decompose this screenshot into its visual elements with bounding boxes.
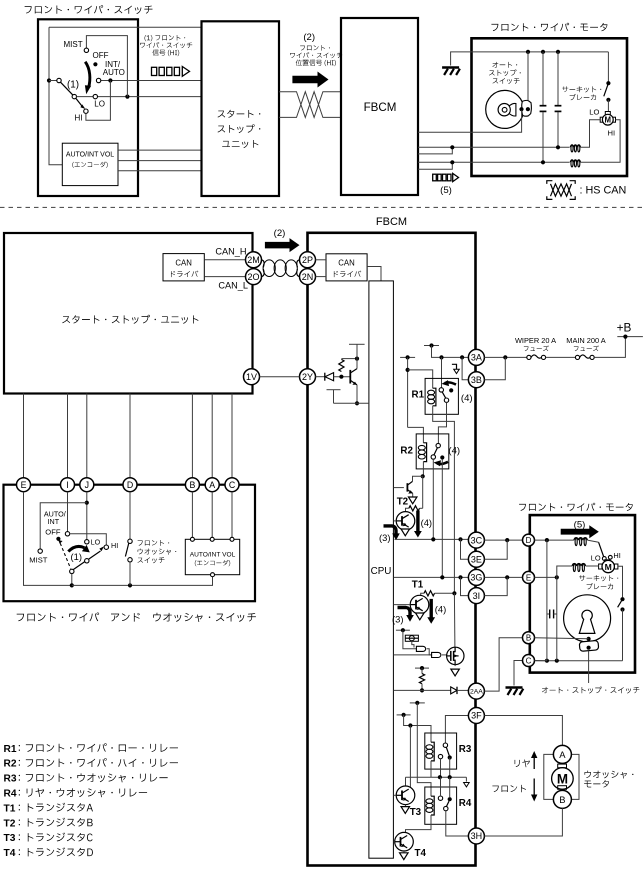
node T2 collector bbox=[421, 474, 425, 478]
wire Q2 emitter bbox=[405, 530, 407, 531]
contact HI bbox=[84, 109, 88, 113]
wire E run bbox=[535, 576, 557, 578]
svg-text:R2: R2 bbox=[4, 759, 17, 770]
inductor E bbox=[572, 563, 586, 566]
wire FBCM HI pair bbox=[418, 161, 570, 163]
wire E up to coil bbox=[557, 566, 572, 577]
svg-text:3G: 3G bbox=[470, 573, 482, 583]
contact MIST bbox=[84, 48, 88, 52]
wire 3C bus bbox=[395, 538, 469, 540]
relay R4 contacts bbox=[448, 797, 452, 801]
port 3H bbox=[468, 828, 484, 844]
encoder AUTO/INT VOL box bbox=[62, 143, 118, 185]
resistor R pullup bbox=[339, 359, 344, 371]
svg-text:3B: 3B bbox=[471, 375, 482, 385]
wire emitter to CPU bbox=[334, 402, 369, 404]
arrow (4) T1 bbox=[430, 599, 433, 618]
icon R1 throw arrow bbox=[452, 364, 457, 369]
wire R4 coil out bbox=[406, 815, 432, 832]
wire T3 base bbox=[393, 794, 396, 796]
arrow (4) T2 bbox=[416, 511, 419, 533]
wire 3F to washer bbox=[484, 716, 562, 746]
node res tap bbox=[339, 375, 343, 379]
contact HI motor bbox=[608, 555, 612, 559]
port 3C bbox=[468, 532, 484, 548]
label auto stop switch bottom bbox=[542, 687, 639, 694]
circuit breaker top bbox=[607, 52, 609, 83]
front wiper and washer switch box bbox=[4, 485, 256, 602]
wire D blade bbox=[587, 540, 598, 542]
relay R1 coil bbox=[433, 388, 436, 406]
terminal Q1 emitter bbox=[416, 613, 425, 620]
svg-text:B: B bbox=[559, 794, 565, 805]
node OFF sw2 bbox=[56, 537, 60, 541]
port 2N bbox=[300, 269, 316, 285]
port 2Y bbox=[300, 369, 316, 385]
start stop unit box bottom bbox=[4, 233, 253, 394]
wire pivot down bbox=[71, 574, 73, 586]
svg-text:(4): (4) bbox=[461, 393, 473, 404]
node 3E ext tap bbox=[505, 538, 509, 542]
wire 3C to D bbox=[484, 539, 522, 541]
contact enc C bbox=[230, 537, 234, 541]
wire J down bbox=[86, 492, 88, 540]
wire FBCM to autostop bbox=[418, 111, 522, 133]
arrow (2) bottom bbox=[265, 238, 300, 252]
svg-text:R3: R3 bbox=[4, 774, 17, 785]
node LO junction bbox=[125, 95, 129, 99]
wire LO to M bbox=[581, 120, 601, 148]
port 3E bbox=[468, 551, 484, 567]
label front washer switch bbox=[138, 540, 170, 546]
supply bar em bbox=[327, 389, 341, 391]
svg-text:2N: 2N bbox=[302, 272, 314, 282]
node washer bottom bbox=[128, 583, 132, 587]
wire D drop bbox=[546, 540, 548, 661]
svg-text:I: I bbox=[66, 480, 68, 490]
terminal C bbox=[225, 478, 239, 492]
svg-text:CPU: CPU bbox=[371, 566, 392, 577]
ground top bbox=[451, 52, 472, 66]
contact enc B bbox=[190, 537, 194, 541]
contact LO sw2 bbox=[85, 540, 89, 544]
label front wiper and washer switch bbox=[17, 612, 256, 622]
wire unit drop A bbox=[211, 394, 213, 478]
svg-text:2M: 2M bbox=[247, 255, 260, 265]
washer bracket bbox=[544, 754, 554, 799]
port 1V bbox=[244, 369, 260, 385]
port 2P bbox=[300, 252, 316, 268]
diode D1 bbox=[324, 373, 326, 381]
relay R1 contacts bbox=[439, 388, 443, 392]
node R2NC-3C bbox=[431, 537, 435, 541]
wire D run bbox=[535, 539, 574, 541]
node pivot bottom bbox=[70, 583, 74, 587]
terminal Q2 emitter bbox=[401, 529, 410, 536]
wire 3E ext link bbox=[484, 540, 507, 559]
resistor T2 bbox=[409, 506, 420, 511]
motor M bottom bbox=[605, 560, 610, 563]
blade sw2 bbox=[73, 562, 85, 570]
wire R3 NO down bbox=[449, 758, 451, 778]
node R1 coil tap bbox=[406, 368, 410, 372]
wire R1 common down bbox=[441, 357, 443, 387]
leader autostop bbox=[588, 651, 590, 683]
label front wiper motor bottom bbox=[519, 503, 633, 511]
svg-text:T2: T2 bbox=[397, 496, 409, 507]
port 2M bbox=[246, 252, 262, 268]
port C motor bbox=[523, 655, 535, 667]
label auto stop switch top bbox=[492, 62, 517, 68]
wire res to Q2 bbox=[406, 508, 409, 511]
supply stub R3 bbox=[397, 714, 411, 716]
relay R2 contacts bbox=[436, 443, 440, 447]
label circuit breaker bottom bbox=[579, 575, 618, 581]
svg-text:MIST: MIST bbox=[64, 40, 83, 49]
wire 3A bus bbox=[432, 346, 469, 358]
terminal D bbox=[123, 478, 137, 492]
fuse WIPER 20A bbox=[527, 355, 531, 359]
svg-text:OFF: OFF bbox=[45, 527, 61, 536]
node contact a bbox=[519, 107, 523, 111]
fuse MAIN 200A bbox=[575, 355, 579, 359]
svg-text:3A: 3A bbox=[471, 353, 482, 363]
circuit breaker bottom bbox=[620, 597, 624, 601]
svg-text:INT: INT bbox=[48, 517, 60, 526]
port B washer bbox=[553, 790, 571, 808]
svg-text:3E: 3E bbox=[471, 555, 482, 565]
node bus E bbox=[555, 659, 559, 663]
wire R4 NO to 3H bbox=[446, 811, 469, 836]
svg-text:MIST: MIST bbox=[29, 556, 48, 565]
node tap cap2 bbox=[556, 50, 560, 54]
contact washer bottom bbox=[128, 558, 132, 562]
label riya bbox=[515, 760, 530, 768]
node tap cap1 bbox=[541, 50, 545, 54]
svg-text:LO: LO bbox=[589, 107, 599, 116]
svg-text:(5): (5) bbox=[440, 185, 452, 196]
svg-text:(3): (3) bbox=[379, 532, 390, 543]
legend HS CAN twisted pair icon bbox=[547, 181, 553, 184]
svg-text:WIPER 20 A: WIPER 20 A bbox=[515, 336, 556, 345]
node tap autostop bbox=[526, 50, 530, 54]
wire R1 coil feed bbox=[408, 370, 433, 388]
wire HI loop bbox=[86, 81, 111, 121]
wire fuse to +B bbox=[594, 337, 625, 357]
svg-text:LO: LO bbox=[591, 554, 601, 563]
divider dashed bbox=[0, 206, 644, 208]
svg-text:: HS CAN: : HS CAN bbox=[580, 185, 627, 197]
svg-text:A: A bbox=[559, 749, 566, 760]
svg-text:(2): (2) bbox=[303, 32, 315, 43]
FET Q3 bbox=[447, 647, 464, 664]
wire top feed bbox=[49, 26, 202, 28]
svg-text:B: B bbox=[189, 480, 195, 490]
port 3A bbox=[468, 349, 484, 365]
contact AUTO/INT sw2 bbox=[65, 532, 69, 536]
svg-text:R1: R1 bbox=[4, 744, 17, 755]
node emitter junction bbox=[355, 401, 359, 405]
relay R3 coil bbox=[431, 742, 434, 761]
node D drop bbox=[545, 538, 549, 542]
autostop brush bottom bbox=[579, 640, 599, 651]
svg-text:T3: T3 bbox=[410, 807, 422, 818]
svg-text:2AA: 2AA bbox=[470, 689, 483, 696]
wire T2 col down bbox=[422, 476, 424, 508]
terminal FET source bbox=[451, 669, 460, 676]
svg-text:(4): (4) bbox=[421, 517, 432, 528]
wire R4 right contact bbox=[449, 777, 451, 797]
wire gate1-gate2 bbox=[427, 649, 432, 655]
svg-text:A: A bbox=[209, 480, 215, 490]
icon dashed signal arrow (1) bbox=[152, 67, 157, 75]
label start stop unit bottom bbox=[62, 315, 198, 324]
svg-text:AUTO/INT VOL: AUTO/INT VOL bbox=[190, 551, 236, 558]
svg-text:LO: LO bbox=[94, 99, 105, 108]
svg-text:E: E bbox=[526, 573, 531, 582]
svg-text:CAN_L: CAN_L bbox=[218, 280, 248, 290]
label washer motor bbox=[584, 771, 633, 779]
svg-text:D: D bbox=[127, 480, 133, 490]
label signal (1) annotation bbox=[145, 35, 186, 41]
node E drop bbox=[555, 575, 559, 579]
wire B run bbox=[535, 638, 589, 639]
wire D down bbox=[129, 492, 131, 539]
wire R1 coil out bbox=[433, 406, 455, 594]
contact HI sw2 bbox=[104, 545, 108, 549]
wire R2 NC to 3C bbox=[432, 459, 434, 539]
svg-text:(4): (4) bbox=[448, 445, 460, 456]
front wiper switch box bbox=[38, 19, 138, 196]
wire 2N to CANdrv bbox=[316, 276, 327, 278]
wire bottom bus motor bbox=[536, 660, 623, 662]
node brush2 bbox=[587, 646, 591, 650]
contact washer top bbox=[128, 539, 132, 543]
contact pivot sw2 bbox=[70, 569, 74, 573]
svg-text:AUTO: AUTO bbox=[103, 68, 125, 77]
capacitor C2 top bbox=[557, 52, 559, 105]
wire R2 coil feed bbox=[408, 427, 424, 442]
gate buffer 2 bbox=[432, 652, 441, 657]
wire INT/AUTO to unit bbox=[101, 80, 202, 82]
contact common bbox=[57, 78, 61, 82]
relay R2 box bbox=[416, 434, 449, 469]
label encoder bbox=[72, 162, 107, 168]
contact INT/AUTO bbox=[96, 78, 100, 82]
terminal I bbox=[61, 478, 75, 492]
capacitor C1 top bbox=[542, 52, 544, 105]
wire motor top feed bbox=[472, 51, 609, 53]
contact blade mid sw2 bbox=[85, 559, 89, 563]
transistor T3 bbox=[396, 786, 415, 805]
wire res top bbox=[341, 358, 357, 360]
relay R3 contacts bbox=[443, 743, 447, 747]
wire I down bbox=[67, 492, 69, 532]
relay R2 coil bbox=[423, 443, 426, 462]
wire R4 left contact bbox=[440, 777, 442, 796]
wire encoder 3 bbox=[118, 170, 202, 172]
arrow rotate sw2 bbox=[68, 546, 84, 551]
transistor T4 bbox=[395, 832, 414, 851]
wire R1coil to FET bbox=[453, 593, 456, 647]
wire gate2 to FET bbox=[442, 654, 447, 656]
wire R2 coil out bbox=[422, 462, 424, 477]
node 3I ext tap bbox=[505, 575, 509, 579]
svg-text:R2: R2 bbox=[400, 446, 413, 457]
wire T4 base bbox=[393, 841, 394, 843]
svg-text:3F: 3F bbox=[471, 711, 482, 721]
svg-text:+B: +B bbox=[617, 320, 632, 334]
terminal B bbox=[185, 478, 199, 492]
svg-text:CAN: CAN bbox=[175, 258, 191, 267]
wire CANdrv to 2M bbox=[204, 259, 245, 261]
resistor 2AA pullup bbox=[421, 668, 423, 674]
node 3I tap bbox=[458, 575, 462, 579]
svg-text:CAN: CAN bbox=[338, 258, 354, 267]
wire washer B to 3H bbox=[484, 808, 562, 836]
CPU box bbox=[369, 281, 394, 858]
wire E down bbox=[24, 492, 72, 586]
svg-text:R3: R3 bbox=[459, 744, 472, 755]
svg-text:HI: HI bbox=[608, 129, 616, 138]
svg-text:OFF: OFF bbox=[93, 51, 109, 60]
wire Q1 emitter bbox=[419, 613, 421, 616]
svg-text:T4: T4 bbox=[415, 848, 427, 859]
wire unit drop E bbox=[23, 394, 25, 478]
wire encoder 2 bbox=[118, 160, 202, 162]
svg-text:FBCM: FBCM bbox=[376, 216, 407, 228]
svg-text:MAIN 200 A: MAIN 200 A bbox=[566, 336, 606, 345]
transistor Q2 power bbox=[396, 512, 415, 531]
node R2NO-3G bbox=[440, 575, 444, 579]
arrow R1 (4) bbox=[445, 382, 456, 384]
inductor LO top bbox=[570, 145, 580, 147]
svg-text:FBCM: FBCM bbox=[364, 101, 397, 114]
wire osc to gate1 bbox=[412, 641, 414, 647]
node 2AA res bbox=[420, 688, 424, 692]
contact LO motor bbox=[602, 557, 606, 561]
wire common tap bbox=[49, 80, 57, 82]
svg-text:T2: T2 bbox=[4, 818, 16, 829]
transistor Q2Y bbox=[349, 370, 351, 384]
wire Q2 base bbox=[393, 520, 396, 522]
supply stub left bbox=[400, 356, 415, 358]
supply stub 3A bbox=[424, 345, 439, 347]
node bus D bbox=[545, 659, 549, 663]
arrow R2 (4) bbox=[437, 462, 448, 464]
wire 1V-2Y bbox=[260, 376, 300, 378]
capacitor motor bbox=[547, 613, 550, 615]
wire 3E link bbox=[461, 539, 469, 559]
arrow front down bbox=[533, 779, 535, 796]
wire res to Q1 bbox=[421, 593, 424, 596]
svg-text:1V: 1V bbox=[246, 372, 257, 382]
svg-text:2P: 2P bbox=[302, 255, 313, 265]
svg-text:C: C bbox=[229, 480, 236, 490]
svg-text:B: B bbox=[526, 634, 531, 643]
wire R3 NC down bbox=[440, 759, 442, 777]
svg-text:CAN_H: CAN_H bbox=[215, 246, 246, 256]
svg-text:2Y: 2Y bbox=[302, 372, 313, 382]
wire FBCM LO pair bbox=[418, 146, 570, 148]
wire unit drop B bbox=[191, 394, 193, 478]
port 2O bbox=[246, 269, 262, 285]
washer motor M bbox=[552, 768, 574, 790]
node brush1 bbox=[587, 637, 591, 641]
arrow (3) T1 bbox=[398, 608, 411, 616]
port A washer bbox=[553, 745, 571, 763]
node 3B ext tap bbox=[503, 355, 507, 359]
label start stop unit top bbox=[218, 110, 261, 118]
wire FET source bbox=[454, 665, 456, 667]
wire washer bottom bbox=[129, 562, 131, 585]
icon dashed arrow (5) bbox=[433, 174, 437, 181]
label front washer bbox=[492, 785, 526, 792]
svg-text:HI: HI bbox=[111, 541, 118, 550]
wire C down bbox=[231, 492, 233, 538]
svg-text:J: J bbox=[85, 480, 89, 490]
inductor HI top bbox=[570, 160, 580, 162]
supply stub osc bbox=[396, 629, 410, 631]
wire R4 coil feed bbox=[417, 703, 431, 796]
node mid2 bbox=[448, 775, 452, 779]
wiper motor M top bbox=[605, 112, 610, 115]
terminal J bbox=[80, 478, 94, 492]
wire autostop from rail bbox=[527, 52, 529, 101]
terminal T2 emitter bbox=[408, 497, 417, 504]
wire 3G bus bbox=[393, 576, 468, 578]
wire E drop bbox=[556, 577, 558, 660]
svg-text:R4: R4 bbox=[4, 789, 17, 800]
auto stop switch rotor top bbox=[486, 90, 524, 128]
wire diode-base bbox=[334, 376, 351, 378]
wire 3B ext link bbox=[484, 357, 505, 379]
wire unit drop C bbox=[231, 394, 233, 478]
icon mid hook bbox=[465, 777, 467, 781]
dashed OFF blade bbox=[60, 543, 70, 568]
wire fuse-fuse bbox=[546, 356, 576, 358]
relay R1 box bbox=[425, 378, 458, 414]
gate buffer 1 bbox=[416, 646, 425, 651]
label front wiper motor title top bbox=[491, 23, 607, 32]
svg-text:3C: 3C bbox=[471, 535, 483, 545]
ground bottom bbox=[514, 661, 523, 686]
svg-text:(1): (1) bbox=[67, 80, 79, 91]
wire 2Y in bbox=[316, 376, 325, 378]
wire unit drop I bbox=[67, 394, 69, 478]
port D motor bbox=[523, 534, 535, 546]
svg-text:(3): (3) bbox=[392, 613, 403, 624]
wire R3 coil out bbox=[430, 761, 432, 777]
arrow (2) solid bbox=[292, 72, 328, 88]
svg-text:HI: HI bbox=[75, 113, 83, 122]
svg-text:(1): (1) bbox=[71, 551, 82, 562]
svg-text:3H: 3H bbox=[471, 831, 483, 841]
wire T3 collector bbox=[409, 726, 411, 788]
transistor T2 driver bbox=[393, 487, 404, 489]
wire MIST loop bbox=[86, 36, 127, 97]
supply bar 2Y bbox=[349, 343, 365, 345]
node 3E tap bbox=[458, 537, 462, 541]
svg-text:R1: R1 bbox=[412, 390, 425, 401]
CAN driver box unit bbox=[163, 254, 204, 281]
node R1 common tap bbox=[439, 355, 443, 359]
port 3B bbox=[468, 372, 484, 388]
port B motor bbox=[523, 632, 535, 644]
svg-text:R4: R4 bbox=[459, 798, 472, 809]
node mid1 bbox=[438, 775, 442, 779]
svg-text:E: E bbox=[21, 480, 27, 490]
